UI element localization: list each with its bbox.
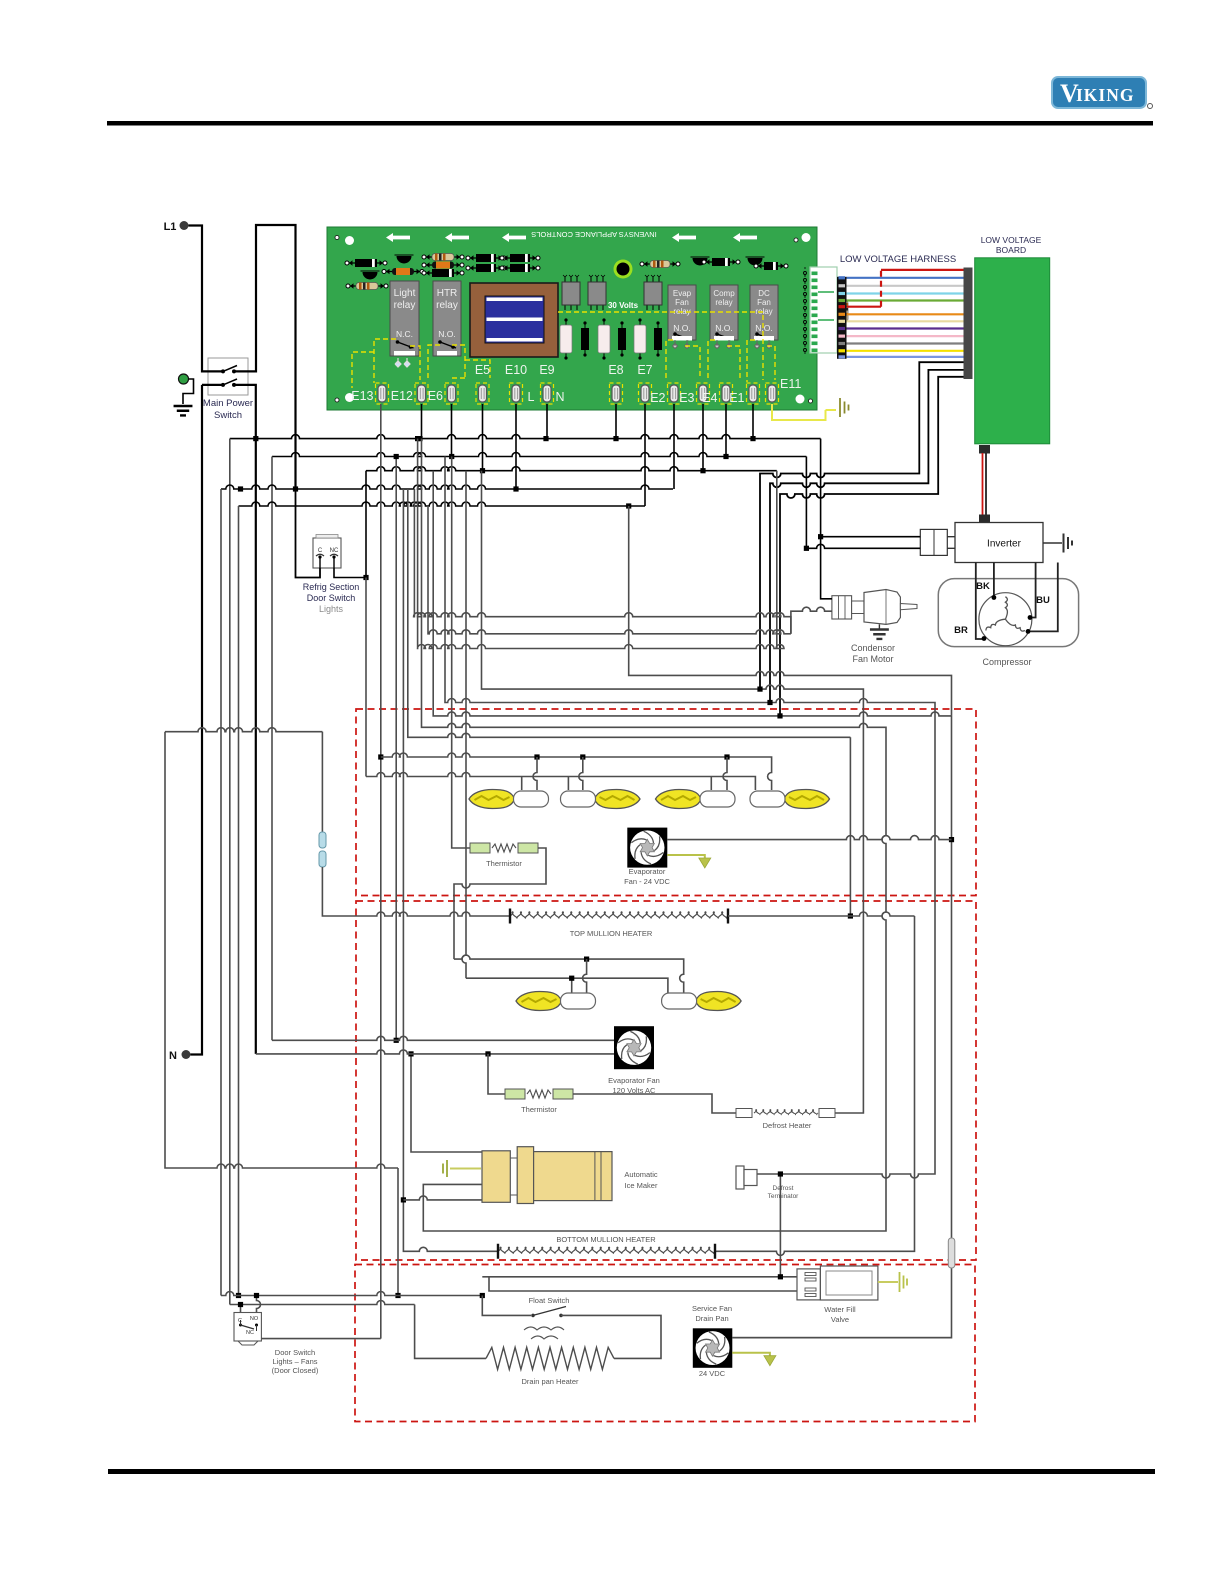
junction	[408, 1051, 413, 1056]
bus condensor upper	[414, 489, 791, 634]
svg-text:C: C	[318, 548, 323, 554]
top mullion heater coil	[510, 912, 728, 918]
run to mullion join	[408, 489, 851, 737]
junction	[778, 1171, 783, 1176]
svg-text:relay: relay	[436, 300, 458, 311]
svg-text:Ice Maker: Ice Maker	[625, 1181, 658, 1190]
svg-text:INVENSYS APPLIANCE CONTROLS: INVENSYS APPLIANCE CONTROLS	[531, 230, 656, 239]
svg-text:Fan: Fan	[675, 298, 689, 307]
svg-text:LOW VOLTAGE HARNESS: LOW VOLTAGE HARNESS	[840, 254, 956, 265]
terminal drop x=547	[546, 404, 548, 439]
wire thermistor 1 right	[454, 848, 546, 959]
wire top mullion right	[728, 912, 915, 916]
terminal drop x=421.5	[421, 404, 423, 439]
terminal E2	[650, 383, 680, 405]
door switch pin C	[240, 1305, 242, 1313]
lamp refrig 2	[662, 992, 742, 1011]
lamp freezer 3	[656, 790, 736, 809]
junction	[626, 503, 631, 508]
evaporator fan 24VDC	[627, 828, 667, 868]
svg-text:N.O.: N.O.	[438, 329, 455, 339]
wire valve drop	[779, 1174, 781, 1277]
svg-text:Service Fan: Service Fan	[692, 1304, 732, 1313]
svg-text:Float Switch: Float Switch	[529, 1296, 570, 1305]
lamp junction	[534, 754, 539, 759]
freezer section dashed box	[356, 709, 976, 896]
wire to freezer lamp bus B	[365, 578, 367, 777]
terminal drop x=645	[644, 404, 646, 506]
Viking logo	[1052, 77, 1153, 109]
svg-text:Thermistor: Thermistor	[521, 1105, 557, 1114]
junction E10/H4	[513, 486, 518, 491]
terminal E3	[679, 383, 709, 405]
junction	[848, 913, 853, 918]
drain pan section dashed box	[355, 1265, 975, 1422]
terminal E12	[391, 383, 428, 404]
relay K4 Comp relay	[710, 285, 738, 341]
drain pan heater zigzag	[486, 1347, 614, 1369]
left rail C	[220, 489, 222, 1296]
svg-text:Automatic: Automatic	[624, 1170, 658, 1179]
svg-text:BOARD: BOARD	[996, 245, 1026, 255]
wire switch pole2 rail	[235, 385, 256, 1054]
terminal E10	[505, 363, 527, 404]
svg-text:Fan - 24 VDC: Fan - 24 VDC	[624, 877, 670, 886]
relay K2 HTR relay	[433, 281, 461, 356]
terminal drop x=703	[702, 404, 704, 471]
defrost heater coil	[754, 1110, 818, 1115]
LV out wire 1	[760, 362, 964, 689]
svg-text:E4: E4	[702, 391, 717, 405]
svg-text:E5: E5	[475, 363, 490, 377]
lamp junction	[580, 754, 585, 759]
evaporator fan 120VAC	[614, 1026, 654, 1069]
junction E6/H2	[449, 454, 454, 459]
automatic ice maker	[482, 1147, 612, 1204]
svg-text:relay: relay	[755, 307, 772, 316]
svg-text:E2: E2	[650, 391, 665, 405]
terminal drop x=482.5	[482, 404, 484, 471]
LV out wire 2	[770, 370, 964, 703]
junction E3/H3	[700, 468, 705, 473]
wire to float switch	[482, 1296, 531, 1316]
terminal E8	[608, 363, 623, 404]
wire bus to drain pan heater	[415, 1305, 486, 1359]
PCB gray transistor packages	[562, 275, 580, 310]
wire fuse top	[321, 732, 323, 832]
junction E8/H1	[613, 436, 618, 441]
svg-text:E10: E10	[505, 363, 527, 377]
relay K5 DC Fan relay	[750, 285, 778, 341]
svg-text:Door Switch: Door Switch	[307, 593, 356, 603]
lamp stub	[571, 978, 573, 994]
compressor wires from inverter	[976, 563, 983, 640]
svg-text:Terminator: Terminator	[768, 1193, 800, 1200]
wire H3 to door switch node	[365, 471, 367, 578]
junction ice maker feed	[401, 1197, 406, 1202]
wire valve pin2	[489, 1277, 801, 1291]
rail mid 403 to bottom mullion heater	[403, 489, 498, 1251]
door switch pin NC	[257, 1296, 261, 1313]
bottom mullion heater coil	[498, 1247, 715, 1253]
svg-text:Evaporator Fan: Evaporator Fan	[608, 1076, 660, 1085]
main earth ground	[174, 406, 193, 415]
PCB edge connector J1	[804, 267, 838, 354]
bus evap fan 24	[667, 836, 951, 840]
relay K3 Evap Fan relay	[668, 285, 696, 341]
rail mid 396	[395, 457, 397, 1041]
terminal drop x=516	[515, 404, 517, 489]
svg-text:Thermistor: Thermistor	[486, 859, 522, 868]
wire lamp feed drop	[397, 1168, 399, 1296]
junction	[236, 1293, 241, 1298]
terminal drop x=616	[615, 404, 617, 439]
inverter box	[955, 523, 1043, 563]
svg-text:NO: NO	[250, 1316, 259, 1322]
svg-text:LOW VOLTAGE: LOW VOLTAGE	[981, 235, 1042, 245]
svg-text:E7: E7	[637, 363, 652, 377]
svg-text:BOTTOM MULLION HEATER: BOTTOM MULLION HEATER	[556, 1235, 656, 1244]
svg-text:Refrig Section: Refrig Section	[303, 582, 360, 592]
svg-text:Inverter: Inverter	[987, 539, 1022, 550]
thermistor 2 zigzag	[527, 1090, 551, 1098]
svg-text:Condensor: Condensor	[851, 643, 895, 653]
bus condensor lower	[428, 506, 791, 634]
freezer lamp stubs	[521, 777, 523, 791]
refrigerator section dashed box	[356, 901, 976, 1260]
chassis ground green terminal	[179, 374, 189, 384]
left rail B	[271, 457, 273, 1041]
condensor fan earth ground	[870, 630, 889, 639]
harness connector strip left	[837, 277, 847, 359]
terminal E13	[351, 383, 388, 404]
junction	[485, 1051, 490, 1056]
svg-text:Switch: Switch	[214, 410, 242, 421]
wire service fan to right rail	[732, 1337, 951, 1339]
junction	[415, 436, 420, 441]
svg-text:Comp: Comp	[713, 289, 735, 298]
svg-text:DC: DC	[758, 289, 770, 298]
wire to refrig door switch C	[296, 489, 321, 578]
ice maker ground	[450, 1168, 481, 1170]
low voltage board	[975, 258, 1050, 444]
svg-text:E11: E11	[780, 377, 801, 391]
junction LV3	[777, 713, 782, 718]
bus H4	[221, 485, 673, 489]
evap fan 24 ground	[667, 855, 705, 859]
junction	[778, 1274, 783, 1279]
svg-text:E1: E1	[729, 391, 744, 405]
bottom bus A	[221, 1292, 482, 1296]
wire condensor fan pin2	[791, 607, 832, 634]
svg-text:N.O.: N.O.	[673, 323, 690, 333]
rail lamp2 B	[462, 471, 466, 979]
svg-text:NC: NC	[246, 1330, 254, 1336]
svg-text:IKING: IKING	[1076, 85, 1134, 105]
PCB mounting holes	[335, 236, 339, 240]
wire condensor fan pin1 / inverter feed1	[821, 439, 832, 599]
wire thermistor 1 left	[452, 457, 470, 849]
run to defrost heater	[482, 471, 864, 1113]
right long rail	[732, 716, 951, 1338]
relay K1 Light relay	[390, 281, 419, 356]
PCB yellow dashed traces	[374, 312, 775, 383]
junction	[395, 1293, 400, 1298]
header rule top	[107, 121, 1153, 126]
svg-text:relay: relay	[394, 300, 416, 311]
wire float switch to heater	[561, 1315, 661, 1358]
svg-text:Valve: Valve	[831, 1315, 849, 1324]
terminal drop x=753	[752, 404, 754, 439]
junction	[394, 1038, 399, 1043]
svg-text:Evap: Evap	[673, 289, 692, 298]
svg-text:E13: E13	[351, 389, 373, 403]
junction E12/H1	[417, 436, 422, 441]
junction	[818, 534, 823, 539]
terminal E7	[637, 363, 652, 404]
svg-text:E8: E8	[608, 363, 623, 377]
lamp refrig 1	[516, 992, 596, 1011]
freezer lamp bus B	[366, 773, 755, 791]
svg-text:N.O.: N.O.	[715, 323, 732, 333]
harness wires	[847, 277, 964, 279]
refrig section door switch	[313, 535, 341, 569]
junction LV2	[767, 700, 772, 705]
wire mullion return	[715, 916, 915, 1255]
svg-text:Lights: Lights	[319, 604, 344, 614]
harness connector strip right	[964, 268, 973, 380]
svg-text:BU: BU	[1036, 595, 1050, 606]
svg-text:E3: E3	[679, 391, 694, 405]
junction E9/H1	[543, 436, 548, 441]
defrost terminator	[736, 1166, 744, 1189]
svg-text:L: L	[528, 390, 535, 404]
bus H5	[239, 502, 646, 506]
defrost heater	[736, 1109, 752, 1118]
PCB vertical passives	[565, 320, 567, 358]
drop to mullion bus	[849, 737, 851, 916]
terminal E4	[702, 383, 732, 405]
bus H1	[230, 435, 821, 439]
svg-text:BR: BR	[954, 625, 968, 636]
terminal E11	[766, 377, 802, 404]
relay lead diamonds	[395, 358, 410, 367]
junction door switch NC	[363, 575, 368, 580]
svg-text:Fan: Fan	[757, 298, 771, 307]
inline connector on right rail	[948, 1238, 955, 1268]
svg-text:HTR: HTR	[437, 288, 458, 299]
svg-text:24 VDC: 24 VDC	[699, 1369, 726, 1378]
wire switch pole 2 input	[202, 384, 222, 386]
LVB output connector	[979, 445, 990, 454]
wire inverter feed 1	[821, 536, 921, 538]
junction evap fan 24	[949, 837, 954, 842]
svg-text:Light: Light	[394, 288, 416, 299]
run to defrost terminator	[445, 457, 935, 1179]
svg-text:Fan Motor: Fan Motor	[852, 654, 893, 664]
terminal E9	[539, 363, 554, 404]
junction E4/H2	[723, 454, 728, 459]
junction E1/H1	[750, 436, 755, 441]
bottom bus B	[230, 1301, 415, 1305]
svg-text:Lights – Fans: Lights – Fans	[272, 1357, 317, 1366]
wire switch pole1 loop	[235, 225, 296, 489]
terminal drop x=674	[673, 404, 675, 489]
wire thermistor 2 left	[488, 1054, 505, 1094]
wire ice maker upper	[411, 1054, 482, 1152]
svg-text:relay: relay	[715, 298, 732, 307]
run top right rail	[629, 506, 952, 716]
E11 ground wire yellow	[772, 404, 826, 420]
bus 1054 to fan120	[256, 1050, 614, 1054]
junction	[569, 976, 574, 981]
junction	[804, 546, 809, 551]
junction	[238, 486, 243, 491]
thermistor 1 zigzag	[492, 844, 516, 852]
svg-text:L1: L1	[164, 221, 177, 233]
svg-text:Defrost: Defrost	[773, 1185, 794, 1192]
terminal E5	[475, 363, 490, 404]
ice maker loop	[422, 439, 887, 1231]
svg-text:N: N	[555, 390, 564, 404]
lamp freezer 4	[750, 790, 830, 809]
lamp freezer 2	[561, 790, 641, 809]
svg-text:30 Volts: 30 Volts	[608, 301, 639, 310]
run to right rail	[433, 471, 951, 716]
lamp stub	[583, 959, 587, 994]
junction LV1	[757, 687, 762, 692]
bus H3	[366, 467, 777, 471]
terminal E1	[729, 383, 759, 405]
rail E13 long	[380, 404, 382, 1339]
LV out wire 3	[780, 377, 964, 716]
wire lamp feed left rail	[165, 732, 398, 1168]
control board PCB	[327, 227, 848, 410]
footer rule	[108, 1469, 1155, 1474]
svg-text:Evaporator: Evaporator	[629, 867, 666, 876]
junction	[394, 454, 399, 459]
condensor fan motor connector	[832, 596, 852, 619]
wire ice maker lower	[403, 1196, 482, 1200]
lamp junction	[724, 754, 729, 759]
inverter input connector	[920, 529, 947, 555]
terminal drop x=726	[725, 404, 727, 457]
main power switch box	[208, 358, 248, 395]
freezer lamp bus A	[381, 753, 772, 790]
svg-text:Compressor: Compressor	[982, 657, 1031, 667]
bus 1040 to fan120	[272, 1036, 614, 1040]
svg-text:Drain Pan: Drain Pan	[695, 1314, 728, 1323]
junction	[238, 1302, 243, 1307]
svg-text:Main Power: Main Power	[203, 398, 253, 409]
transformer T1	[470, 283, 558, 357]
svg-text:E9: E9	[539, 363, 554, 377]
wire inverter feed 2	[806, 457, 920, 549]
condensor fan ground	[878, 624, 880, 629]
inverter chassis ground	[1043, 542, 1062, 544]
wire lamp feed top	[165, 728, 322, 732]
svg-text:N.O.: N.O.	[755, 323, 772, 333]
junction	[254, 1293, 259, 1298]
door switch lights fans	[234, 1313, 261, 1346]
svg-text:TOP MULLION HEATER: TOP MULLION HEATER	[570, 929, 653, 938]
left rail D	[238, 506, 240, 1296]
condensor fan motor body	[852, 601, 864, 614]
condensor fan shaft	[900, 604, 917, 610]
bus lamp2 B	[466, 978, 668, 994]
svg-text:Defrost Heater: Defrost Heater	[763, 1121, 812, 1130]
loop H1-H3 via condensor area	[418, 439, 785, 649]
terminal drop x=451.5	[451, 404, 453, 457]
svg-text:E12: E12	[391, 389, 413, 403]
PCB discrete components top-right	[642, 263, 678, 265]
bus lamp2 A	[454, 955, 684, 994]
inverter DC feed wires red/black	[982, 453, 984, 515]
junction E13 lamp bus	[378, 754, 383, 759]
compressor motor windings	[979, 593, 1032, 646]
svg-text:BK: BK	[976, 581, 990, 592]
wire door switch to E13 rail	[261, 1338, 380, 1340]
compressor enclosure	[938, 579, 1078, 647]
PCB discrete components top-left	[347, 262, 385, 264]
wire thermistor 2 to defrost heater	[573, 1094, 736, 1113]
resistor near connector	[843, 295, 845, 327]
junction	[584, 957, 589, 962]
left rail A	[229, 439, 231, 1305]
main power switch poles	[221, 369, 225, 373]
wire door switch NC	[334, 568, 366, 578]
svg-text:N.C.: N.C.	[396, 329, 413, 339]
junction E5/H3	[480, 468, 485, 473]
wire to water valve	[482, 1276, 801, 1278]
bus H2	[272, 453, 806, 457]
lamp freezer 1	[469, 790, 549, 809]
svg-text:Water Fill: Water Fill	[824, 1305, 856, 1314]
wire fuse to top mullion heater	[322, 867, 510, 916]
service fan ground	[732, 1353, 770, 1357]
svg-text:(Door Closed): (Door Closed)	[272, 1366, 319, 1375]
service fan drain pan	[693, 1328, 733, 1368]
junction float switch	[480, 1293, 485, 1298]
svg-text:NC: NC	[330, 548, 339, 554]
svg-text:Door Switch: Door Switch	[275, 1348, 315, 1357]
junction	[253, 436, 258, 441]
terminal E6	[428, 383, 458, 404]
wire left rail to N	[191, 385, 203, 1055]
wire L1 to switch pole 1	[189, 226, 223, 372]
junction	[293, 486, 298, 491]
PCB big hole with ring	[614, 260, 633, 279]
svg-text:N: N	[169, 1050, 177, 1062]
svg-text:Drain pan Heater: Drain pan Heater	[521, 1377, 579, 1386]
PCB silk arrows	[386, 233, 410, 242]
svg-text:E6: E6	[428, 389, 443, 403]
